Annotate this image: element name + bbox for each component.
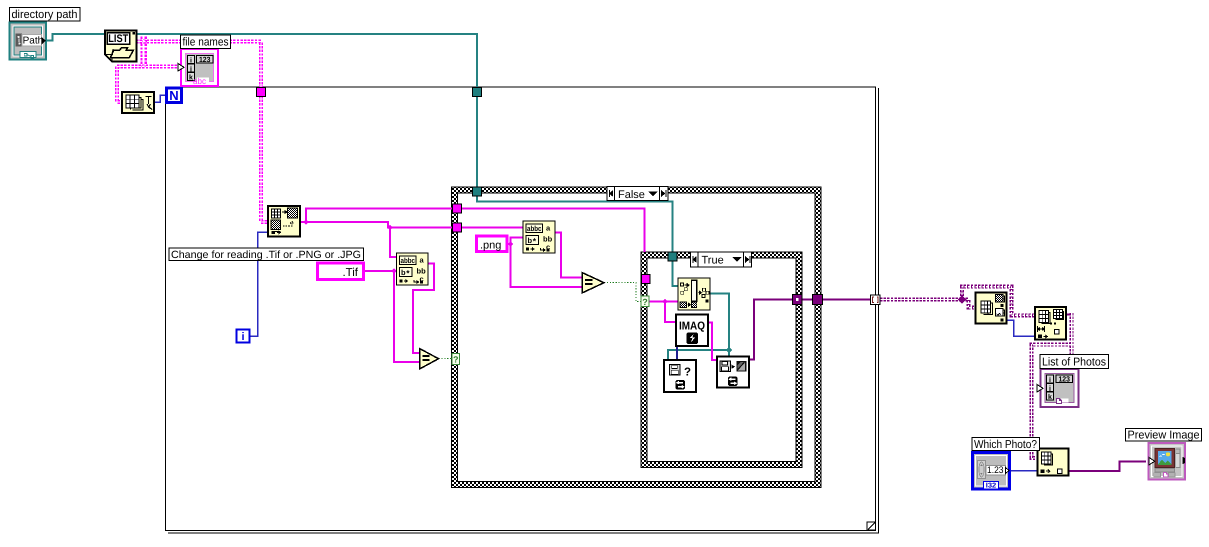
svg-text:Path: Path [23,36,44,47]
selector terminal ? on False case [452,354,460,365]
svg-text:i: i [1049,376,1051,384]
svg-text:i: i [190,56,192,64]
label change for reading [169,248,364,261]
label Which Photo? [972,438,1040,452]
svg-text:abbc: abbc [401,256,416,265]
svg-text:1.23: 1.23 [987,465,1004,476]
tunnel pink1 on False case left [453,204,462,213]
indicator: Preview Image [1149,443,1186,480]
svg-text:123: 123 [199,55,211,64]
junction diamond at step-down [387,225,393,231]
svg-text:I32: I32 [986,483,997,490]
svg-text:Preview Image: Preview Image [1128,430,1200,442]
node: index array (which photo) [1038,449,1069,476]
label List of Photos [1040,355,1109,369]
node: equals comparator (in loop) [420,349,439,370]
tunnel indexing bracket on for-loop right [871,295,881,305]
label file names [181,35,231,49]
label directory path [10,8,81,22]
case selector label True [691,252,752,267]
svg-text:b: b [528,236,533,245]
terminal N (loop count) [167,88,182,103]
svg-text:directory path: directory path [12,9,78,21]
constant .png string [477,236,508,252]
wire blue i to index array [250,232,268,336]
svg-text:k: k [1048,393,1052,401]
wire purple image out of True case to for-loop edge [749,300,871,360]
indicator: List of Photos (path array) [1037,369,1079,407]
wire purple icon3 to preview image [1069,461,1147,471]
for loop resize glyph [867,522,876,530]
svg-text:b: b [401,268,406,277]
node: array subset (right of loop) [1035,307,1066,340]
svg-text:LIST: LIST [108,33,128,45]
label Preview Image [1126,429,1202,442]
node: concatenate strings (in case) [523,221,555,253]
junction diamond on index-array output [303,219,309,225]
wire purple icon2 out down to list indicator [1066,314,1072,316]
tunnel pink2 on False case left [453,223,462,232]
svg-text:.Tif: .Tif [342,267,358,279]
wire blue icon1 to icon2 [1007,320,1036,336]
svg-text:file names: file names [183,37,229,49]
case selector label False [607,187,668,202]
tunnel teal on True case top [668,252,677,261]
wire blue array size to N [154,95,166,102]
control: Which Photo? (numeric I32) [973,453,1010,490]
node: search 1D array (True case) [678,278,710,310]
junction diamond purple [958,295,966,303]
selector terminal ? on True case [641,296,649,307]
tunnel teal on for-loop top [473,88,482,97]
wire navy IMAQ to floppy-question [676,346,678,360]
indicator: file names (string array) [178,49,218,86]
junction diamond on .png wire [508,241,514,247]
wire magenta inside True case [649,302,678,323]
svg-text:j: j [1048,384,1051,392]
svg-text:Change for reading .Tif or .PN: Change for reading .Tif or .PNG or .JPG [171,249,361,261]
svg-text:True: True [702,255,724,267]
svg-text:N: N [169,88,178,103]
svg-text:List of Photos: List of Photos [1042,357,1106,369]
node: Array Size [122,92,154,113]
node: image array helper (right of loop) [976,293,1007,324]
svg-text:123: 123 [1058,374,1070,383]
wire purple ring array after for loop [880,287,1035,316]
wire teal inner case [668,294,729,361]
case structure FALSE border [452,187,822,488]
case structure TRUE border [641,252,802,468]
svg-text:i: i [241,331,244,343]
for loop border [166,87,880,533]
tunnel teal on False case top [473,187,482,196]
wire magenta IMAQ to readfile icon [708,323,717,361]
wire magenta array from LIST [117,37,268,223]
wire green boolean equals1 to case selector [439,358,453,360]
tunnel purple with dot on True case right [793,295,803,305]
junction diamond inner case [662,299,668,305]
svg-text:abbc: abbc [527,224,542,233]
node: IMAQ Create [676,315,708,347]
tunnel purple on False case right [813,295,823,305]
tunnel pink on for-loop top [257,88,266,97]
svg-text:?: ? [453,355,459,365]
control: directory path (Path control) [10,23,47,60]
teal junction diamond [726,347,733,354]
node: IMAQ ReadFile (floppy to image) [717,357,749,388]
tunnel pink on True case left [642,275,651,284]
svg-text:Which Photo?: Which Photo? [974,439,1037,451]
svg-text:abc: abc [193,76,207,86]
wire green boolean equals2 to inner selector [604,283,641,302]
wire magenta .png to concat2 and equals2 [507,233,582,288]
node: file check (floppy ?) [664,360,696,392]
node: Index Array (in loop) [268,206,300,237]
wire blue which photo to icon3 [1010,470,1038,472]
svg-text:.png: .png [480,240,501,252]
node: concatenate strings (left) [397,253,429,285]
wire magenta scalar string: index array out to case tunnels [300,209,645,258]
constant .Tif string [318,263,364,280]
node: List Folder (LIST) [105,31,137,62]
junction diamond on .Tif wire [391,268,397,274]
svg-text:IMAQ: IMAQ [679,321,705,333]
svg-text:?: ? [642,297,648,307]
terminal i (loop iteration) [237,330,250,344]
svg-text:?: ? [684,367,691,379]
wire magenta .Tif to concat and equals [364,264,434,363]
node: equals comparator (in case) [582,273,604,294]
svg-text:j: j [189,65,192,73]
svg-text:False: False [618,189,645,201]
wire teal path main [46,34,678,286]
